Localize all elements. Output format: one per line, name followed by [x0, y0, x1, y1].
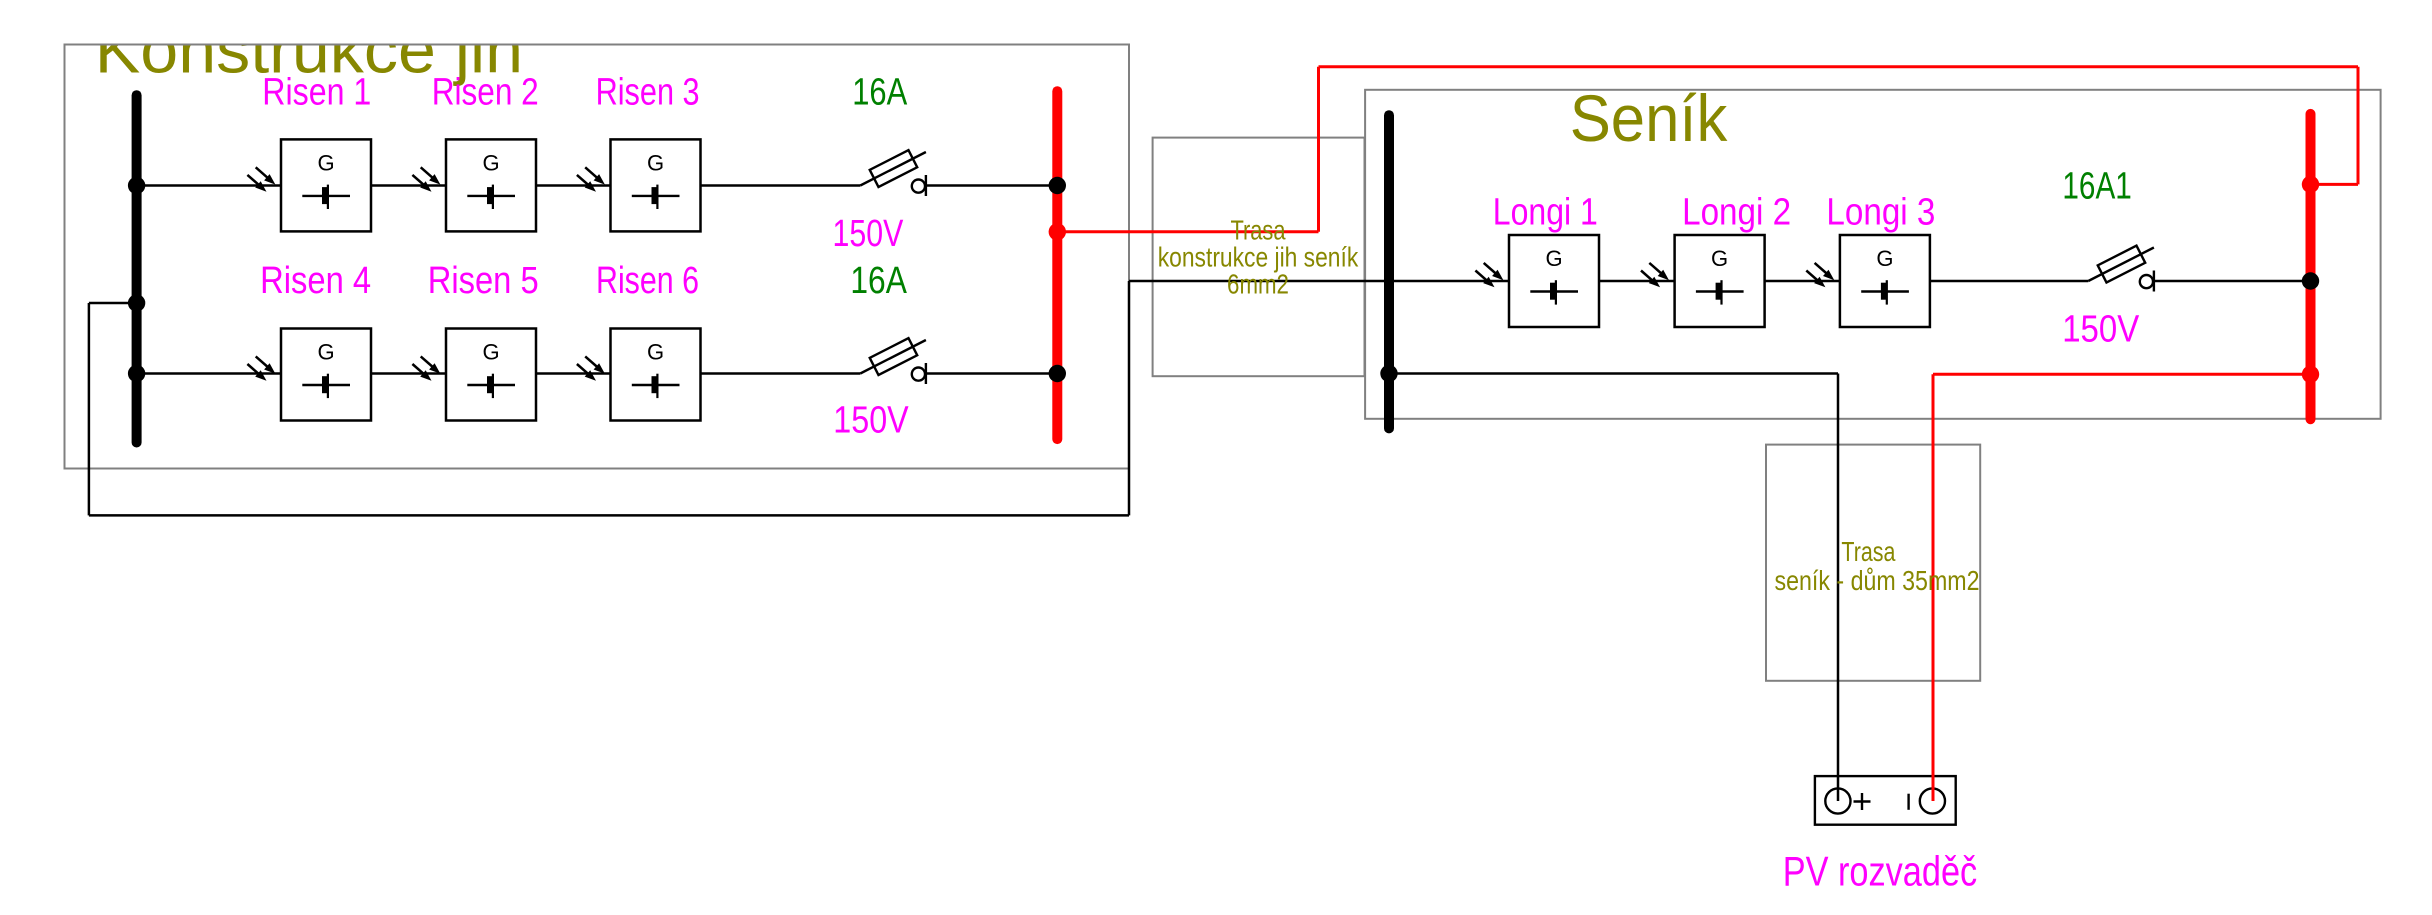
svg-text:G: G [317, 150, 334, 175]
terminal - circle [1920, 788, 1945, 813]
junction output on Senik black bus [1380, 365, 1397, 382]
terminal + circle [1825, 788, 1850, 813]
PV module Risen 6 [577, 329, 701, 421]
PV rozvadec terminal box [1815, 776, 1956, 825]
svg-text:G: G [1545, 246, 1562, 271]
wire bottom run [89, 514, 1129, 517]
wire Risen 6 to fuse F2 [701, 372, 861, 375]
red wire top run [1319, 65, 2359, 68]
svg-text:G: G [647, 340, 664, 365]
bus bar Senik red [2306, 114, 2316, 419]
svg-text:seník - dům 35mm2: seník - dům 35mm2 [1775, 565, 1980, 596]
wire bus tap left [89, 302, 137, 305]
svg-text:G: G [317, 340, 334, 365]
bus bar Konstrukce red [1052, 91, 1062, 439]
svg-text:Risen 4: Risen 4 [260, 260, 371, 302]
svg-text:150V: 150V [2062, 309, 2140, 351]
bus bar Senik black [1384, 115, 1394, 428]
wire Longi 3 to fuse F3 [1930, 280, 2088, 283]
junction red harness on red bus [1049, 223, 1066, 240]
svg-text:Longi 3: Longi 3 [1826, 192, 1935, 234]
bus bar Konstrukce black [132, 95, 142, 442]
junction string 1 on red bus [1049, 177, 1066, 194]
svg-text:16A: 16A [850, 260, 907, 302]
svg-text:Trasa: Trasa [1841, 536, 1895, 567]
PV module Risen 2 [412, 139, 536, 231]
wire black bus to down-run [1389, 372, 1838, 375]
red wire down [2357, 67, 2360, 185]
svg-text:G: G [1711, 246, 1728, 271]
svg-text:G: G [647, 150, 664, 175]
title Konstrukce jih (clipped by box top) [95, 12, 523, 86]
svg-text:Risen 1: Risen 1 [262, 72, 371, 114]
wire Risen 2 to Risen 3 [536, 184, 611, 187]
svg-text:16A: 16A [852, 72, 908, 114]
wire Longi 2 to Longi 3 [1765, 280, 1840, 283]
wire bus to Risen 1 [137, 184, 281, 187]
PV module Risen 5 [412, 329, 536, 421]
box Konstrukce jih [65, 45, 1130, 469]
svg-text:Risen 6: Risen 6 [596, 260, 699, 302]
wire Risen 5 to Risen 6 [536, 372, 611, 375]
fuse disconnector F2 16A [860, 338, 926, 384]
svg-text:Risen 2: Risen 2 [432, 72, 539, 114]
PV module Risen 4 [247, 329, 371, 421]
minus mark [1907, 794, 1909, 810]
wire fuse F2 to red bus [926, 372, 1057, 375]
svg-text:Longi 1: Longi 1 [1493, 192, 1598, 234]
box Senik [1365, 90, 2381, 419]
svg-text:Longi 2: Longi 2 [1682, 192, 1791, 234]
box Trasa senik - dum [1766, 445, 1980, 681]
wire fuse F3 to red bus [2155, 280, 2311, 283]
svg-text:6mm2: 6mm2 [1227, 268, 1289, 299]
svg-text:Risen 3: Risen 3 [596, 72, 700, 114]
svg-text:G: G [1876, 246, 1893, 271]
PV module Longi 1 [1475, 235, 1599, 327]
wire Longi 1 to Longi 2 [1599, 280, 1675, 283]
svg-text:Risen 5: Risen 5 [428, 260, 539, 302]
junction red output on Senik red bus [2302, 366, 2319, 383]
wire bus to Risen 4 [137, 372, 281, 375]
red wire from left red bus [1057, 230, 1318, 233]
svg-text:Seník: Seník [1570, 81, 1729, 155]
junction string 2 on black bus [128, 365, 145, 382]
red wire up [1317, 67, 1320, 232]
PV module Risen 3 [577, 139, 701, 231]
red wire to Senik red bus [2311, 183, 2359, 186]
red wire bus to down-run [1933, 373, 2311, 376]
box Trasa konstrukce jih senik [1153, 138, 1365, 377]
junction return tap on black bus [128, 294, 145, 311]
junction Longi string on Senik red bus [2302, 272, 2319, 289]
junction red harness on Senik red bus [2302, 176, 2319, 193]
wire to Senik bus and Longi 1 [1129, 280, 1509, 283]
junction string 1 on black bus [128, 177, 145, 194]
wire up at box edge [1128, 281, 1131, 515]
wire Risen 4 to Risen 5 [371, 372, 446, 375]
PV module Risen 1 [247, 139, 371, 231]
red wire down to PV rozvadec - [1932, 374, 1935, 801]
svg-text:G: G [482, 340, 499, 365]
svg-text:150V: 150V [833, 399, 909, 441]
svg-text:G: G [482, 150, 499, 175]
plus sign [1854, 800, 1871, 802]
fuse disconnector F1 16A [860, 150, 926, 196]
PV module Longi 3 [1806, 235, 1930, 327]
junction string 2 on red bus [1049, 365, 1066, 382]
wire Risen 1 to Risen 2 [371, 184, 446, 187]
svg-text:16A1: 16A1 [2062, 165, 2131, 207]
wire down to PV rozvadec + [1837, 374, 1840, 802]
PV module Longi 2 [1641, 235, 1765, 327]
svg-text:150V: 150V [833, 213, 904, 255]
fuse disconnector F3 16A1 [2088, 246, 2154, 292]
wire Risen 3 to fuse F1 [701, 184, 861, 187]
wire down left side [88, 303, 91, 515]
svg-text:PV rozvaděč: PV rozvaděč [1783, 848, 1978, 895]
wire fuse F1 to red bus [926, 184, 1057, 187]
